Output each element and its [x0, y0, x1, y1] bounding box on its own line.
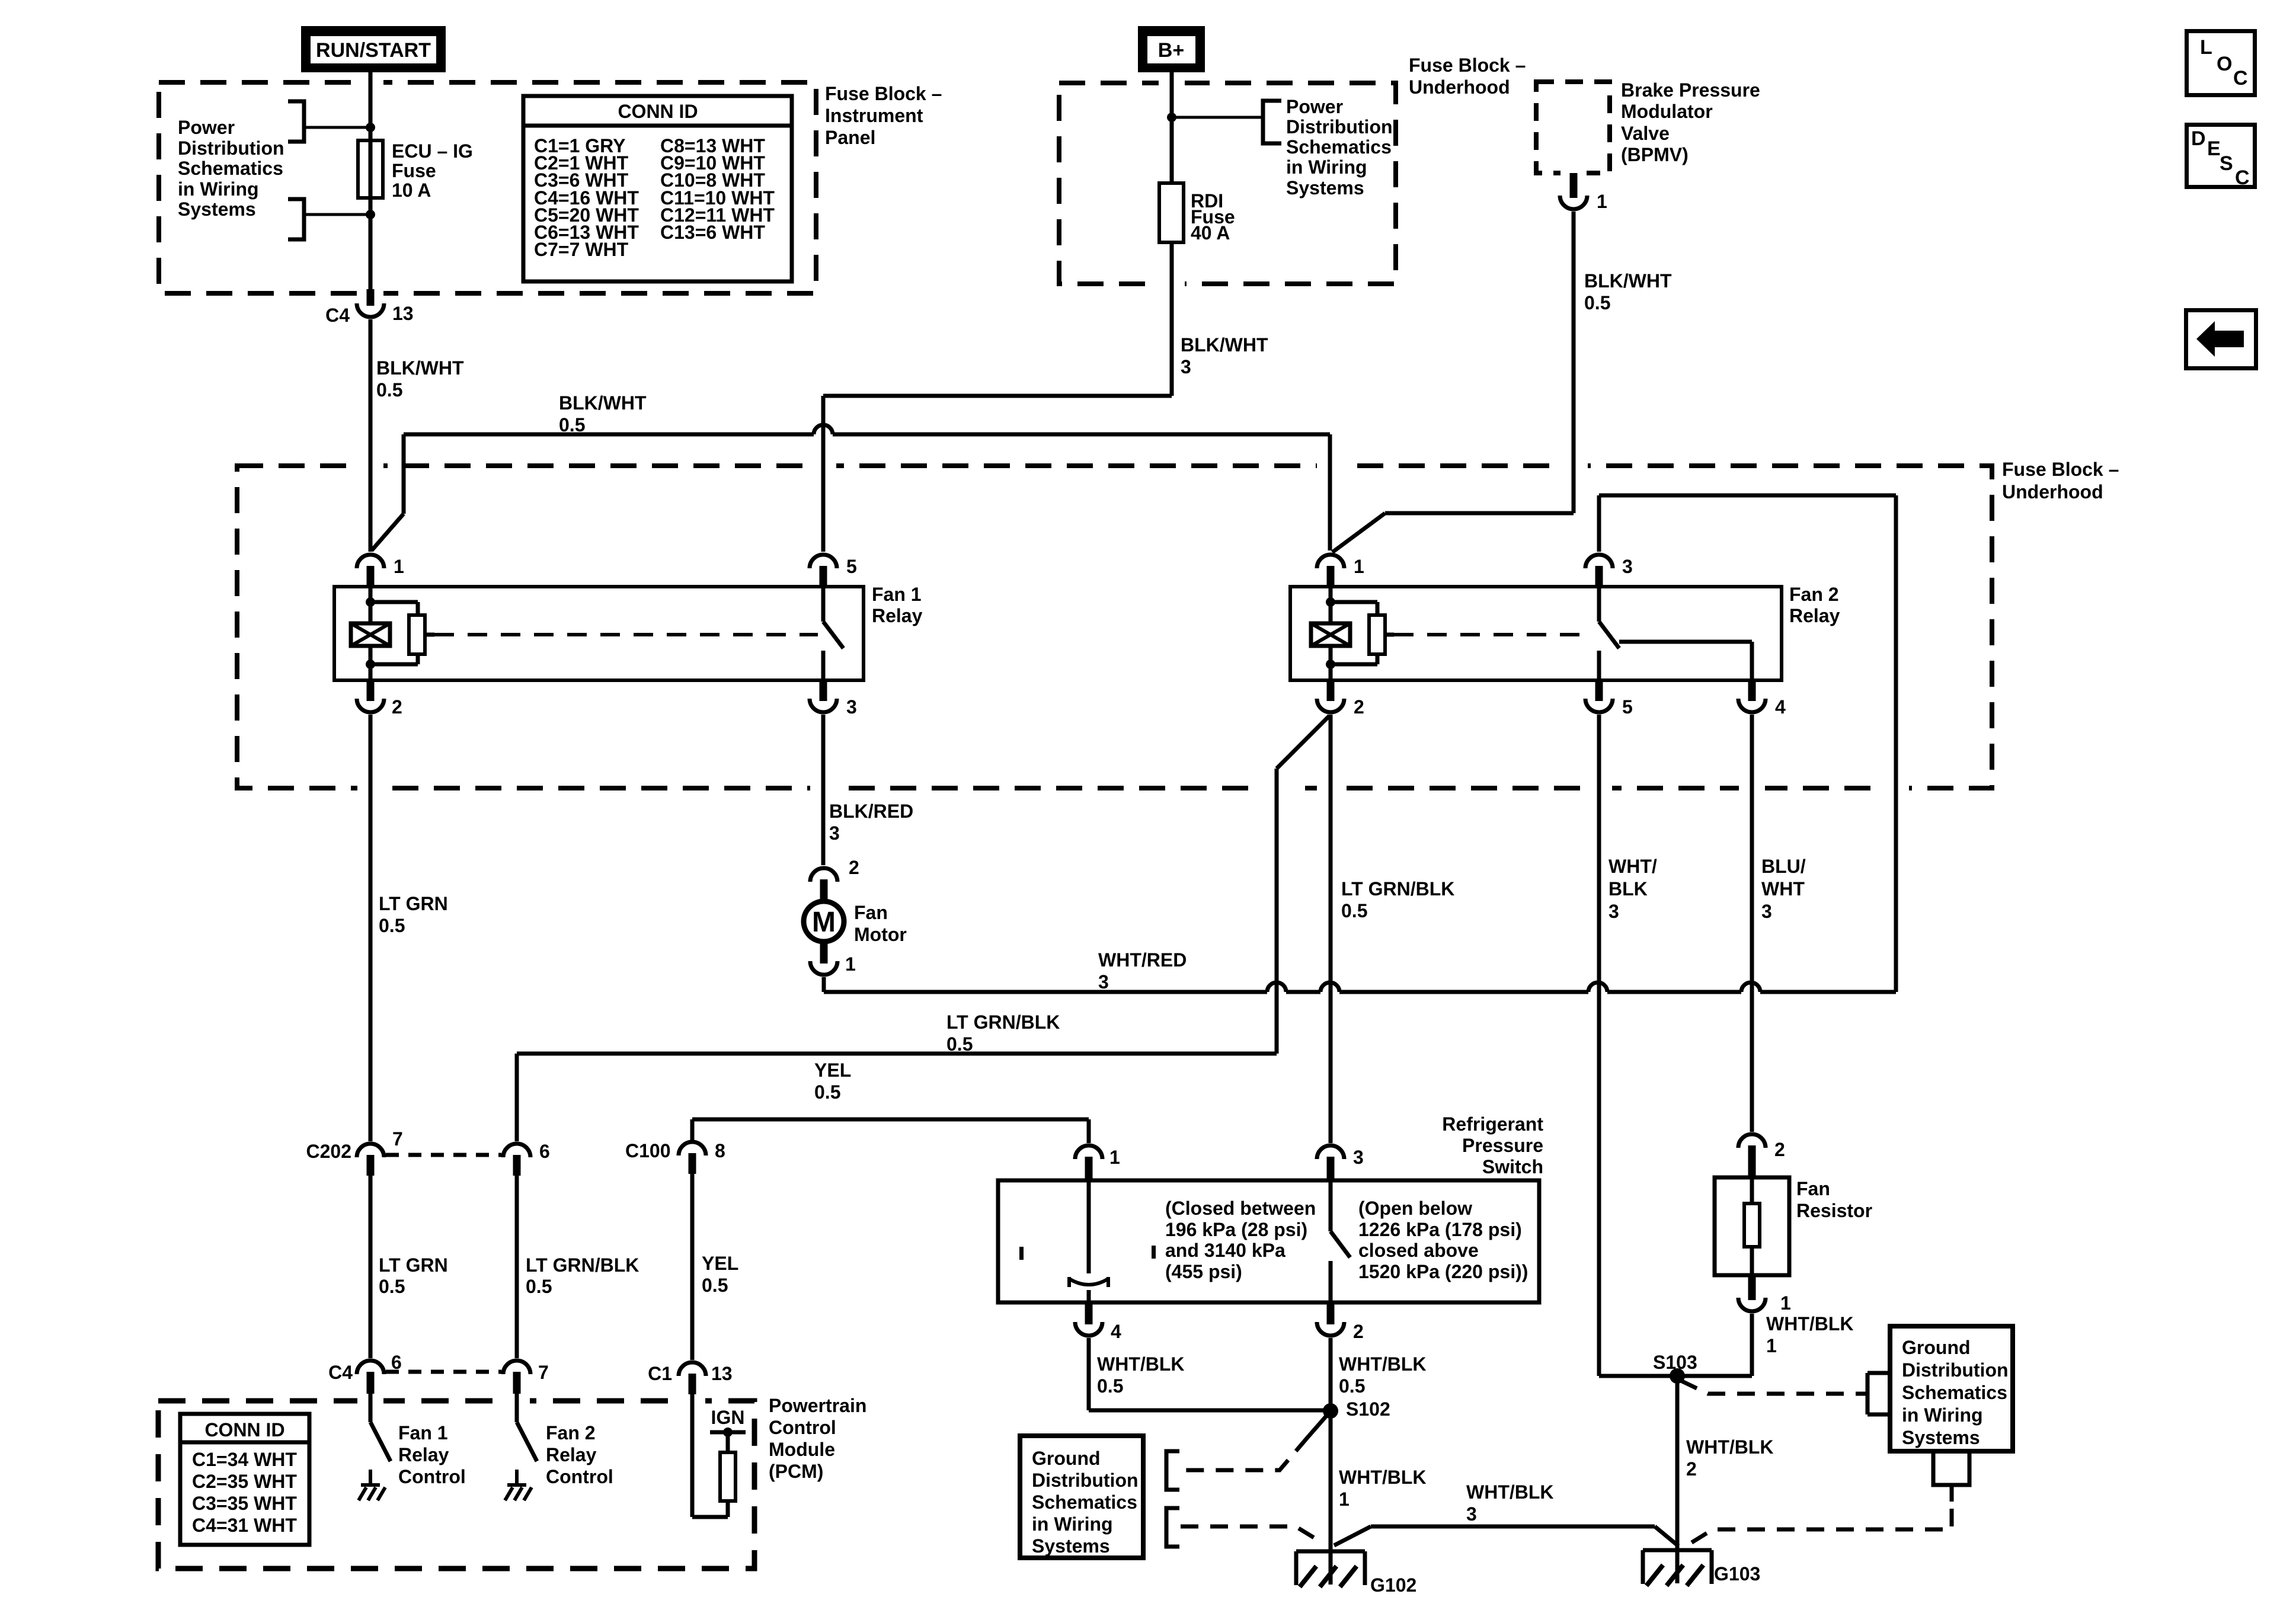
pressure switch left contact [1087, 1180, 1091, 1273]
svg-text:3: 3 [1353, 1147, 1364, 1168]
svg-text:RUN/START: RUN/START [316, 39, 431, 62]
svg-text:Distribution: Distribution [178, 137, 284, 159]
wire BLK/RED fan1 pin3 down [821, 715, 826, 865]
wire diagonal to fan1 pin1 [372, 514, 404, 550]
svg-text:Systems: Systems [178, 199, 256, 220]
svg-text:WHT/BLK: WHT/BLK [1339, 1467, 1427, 1488]
svg-text:G103: G103 [1714, 1563, 1760, 1585]
svg-text:(PCM): (PCM) [769, 1461, 823, 1482]
svg-text:7: 7 [538, 1362, 549, 1383]
svg-text:7: 7 [392, 1128, 403, 1150]
svg-text:0.5: 0.5 [814, 1081, 840, 1103]
svg-text:0.5: 0.5 [559, 414, 585, 436]
ground fan1 relay control [369, 1470, 372, 1485]
svg-text:Control: Control [398, 1466, 466, 1487]
svg-text:BLK/WHT: BLK/WHT [1181, 334, 1268, 356]
fan2 relay pin 1 [1317, 555, 1344, 568]
svg-text:B+: B+ [1158, 39, 1184, 62]
wire pin4 down [1087, 1338, 1091, 1410]
LOC legend box [2187, 31, 2255, 95]
svg-text:WHT/RED: WHT/RED [1098, 949, 1187, 971]
svg-text:Fuse Block –: Fuse Block – [2002, 459, 2119, 480]
wire LT GRN fan1 pin2 down [369, 715, 373, 1141]
node junction dot B+ [1167, 113, 1176, 122]
wire to bracket lower [304, 213, 370, 216]
svg-text:Fan 1: Fan 1 [398, 1422, 448, 1443]
svg-text:G102: G102 [1370, 1574, 1416, 1596]
svg-text:WHT/BLK: WHT/BLK [1766, 1313, 1854, 1334]
svg-text:Fuse Block –: Fuse Block – [1409, 55, 1526, 76]
fan1 relay pin 2 [367, 680, 375, 701]
svg-text:Refrigerant: Refrigerant [1442, 1113, 1543, 1135]
svg-text:ECU – IG: ECU – IG [392, 140, 473, 162]
motor M1 fan motor [804, 901, 844, 942]
svg-text:CONN ID: CONN ID [618, 101, 698, 122]
svg-text:Distribution: Distribution [1032, 1470, 1139, 1491]
svg-text:C3=35 WHT: C3=35 WHT [192, 1493, 297, 1514]
node junction dot upper [366, 123, 375, 132]
svg-text:Systems: Systems [1032, 1535, 1110, 1557]
svg-text:1: 1 [845, 953, 856, 975]
ground G102 [1296, 1550, 1365, 1554]
svg-text:WHT/: WHT/ [1609, 856, 1657, 877]
svg-text:Powertrain: Powertrain [769, 1395, 866, 1416]
svg-text:Resistor: Resistor [1796, 1200, 1872, 1221]
fuse block instrument panel dashed box [159, 82, 816, 293]
svg-text:LT GRN/BLK: LT GRN/BLK [526, 1254, 639, 1276]
wire BLK/WHT 0.5 down [369, 319, 373, 552]
svg-text:YEL: YEL [702, 1253, 738, 1274]
connector half bracket gnd dist lower [1166, 1508, 1179, 1547]
wire LT GRN/BLK down to C202-6 [515, 1054, 519, 1141]
fan2 relay control switch blade [517, 1422, 537, 1461]
svg-text:1: 1 [394, 556, 404, 577]
svg-text:C1=34 WHT: C1=34 WHT [192, 1449, 297, 1470]
PCM dashed box [158, 1401, 754, 1569]
svg-text:1520 kPa (220 psi)): 1520 kPa (220 psi)) [1358, 1261, 1528, 1282]
svg-text:Schematics: Schematics [178, 158, 283, 179]
pressure switch pin 1 [1075, 1145, 1102, 1159]
svg-text:2: 2 [1774, 1139, 1785, 1160]
fan2 relay switch contact top [1597, 587, 1601, 622]
wire to bracket B+ [1172, 116, 1263, 119]
pressure switch pin 3 [1317, 1145, 1344, 1159]
svg-text:in Wiring: in Wiring [1902, 1404, 1983, 1426]
wire BLK/WHT 3 down [1170, 242, 1174, 396]
svg-text:C: C [2235, 167, 2250, 189]
svg-text:C202: C202 [306, 1141, 352, 1162]
wire S103 horizontal [1599, 1374, 1752, 1378]
svg-text:Power: Power [178, 117, 235, 138]
svg-text:LT GRN/BLK: LT GRN/BLK [946, 1012, 1060, 1033]
wire WHT/BLK 2 down to G103 [1675, 1376, 1680, 1583]
svg-text:S: S [2220, 152, 2233, 175]
fan motor pin 1 [820, 941, 828, 964]
svg-text:4: 4 [1111, 1321, 1121, 1342]
svg-text:Schematics: Schematics [1286, 136, 1392, 158]
svg-text:LT GRN/BLK: LT GRN/BLK [1341, 878, 1454, 900]
svg-text:Ground: Ground [1902, 1337, 1971, 1358]
svg-text:Relay: Relay [1789, 605, 1840, 626]
svg-text:Systems: Systems [1902, 1427, 1980, 1448]
svg-text:IGN: IGN [711, 1407, 745, 1428]
wire pin2 down to G102 [1329, 1338, 1333, 1585]
svg-text:C1: C1 [648, 1363, 672, 1384]
connector C202 pin 6 [503, 1144, 530, 1157]
svg-text:10 A: 10 A [392, 180, 431, 201]
wire WHT/RED top horizontal [1599, 494, 1896, 498]
wire WHT/BLK 3 between grounds [1334, 1526, 1371, 1545]
svg-text:0.5: 0.5 [376, 379, 402, 401]
svg-text:1: 1 [1766, 1335, 1777, 1356]
connector C4 pin 13 [367, 289, 375, 306]
fan motor pin 2 [810, 868, 837, 882]
conn id table PCM [180, 1414, 309, 1545]
fan1 relay coil wire bottom [369, 646, 373, 680]
fan resistor inner wire [1750, 1177, 1754, 1204]
wire LT GRN/BLK horizontal [517, 1052, 1277, 1056]
fan2 relay switch blade [1599, 622, 1619, 648]
ground G103 [1643, 1548, 1712, 1553]
wire LT GRN/BLK to C4 [515, 1176, 519, 1358]
svg-text:2: 2 [1353, 1321, 1364, 1342]
fan1 relay pin 5 [810, 555, 837, 568]
fan1 relay coil wire top [369, 587, 373, 623]
svg-text:Panel: Panel [825, 127, 875, 148]
svg-text:3: 3 [829, 822, 840, 844]
svg-text:1: 1 [1354, 556, 1364, 577]
DESC legend box [2187, 125, 2255, 187]
svg-text:5: 5 [1622, 696, 1633, 718]
wire BPMV horizontal [1385, 511, 1574, 516]
svg-text:Distribution: Distribution [1902, 1359, 2009, 1381]
svg-text:2: 2 [849, 857, 859, 878]
svg-text:Motor: Motor [854, 924, 907, 945]
wire BLK/WHT 0.5 horizontal [404, 433, 814, 437]
svg-text:3: 3 [1609, 901, 1619, 922]
svg-text:BLK: BLK [1609, 878, 1648, 900]
svg-text:BLK/WHT: BLK/WHT [376, 357, 464, 379]
svg-text:5: 5 [846, 556, 857, 577]
fan2 relay pin 4 [1748, 680, 1756, 701]
svg-text:E: E [2207, 137, 2221, 160]
svg-text:D: D [2191, 127, 2206, 150]
wire LT GRN/BLK vertical [1275, 769, 1279, 1054]
wire BPMV diagonal to fan2 pin1 [1332, 513, 1385, 552]
svg-text:3: 3 [1761, 901, 1772, 922]
wire WHT/BLK 3 fan2 pin5 down [1597, 715, 1601, 1376]
fan2 relay resistor loop [1331, 600, 1377, 604]
svg-text:in Wiring: in Wiring [178, 178, 259, 200]
svg-text:(Closed between: (Closed between [1165, 1198, 1316, 1219]
wire LT GRN to C4 [369, 1176, 373, 1358]
wire dashed bracket to G103 [1688, 1509, 1952, 1545]
wire YEL up and over [690, 1119, 695, 1140]
wire B+ down [1170, 72, 1174, 183]
fan2 relay coil wire top [1329, 587, 1333, 623]
svg-text:WHT/BLK: WHT/BLK [1686, 1436, 1774, 1458]
fan2 relay pin 5 [1595, 680, 1603, 701]
dash break patches [357, 76, 383, 89]
svg-text:BLK/WHT: BLK/WHT [559, 392, 647, 414]
fan2 relay switch to pin4 [1619, 640, 1752, 644]
fuse RDI [1159, 183, 1184, 242]
svg-text:Fuse Block –: Fuse Block – [825, 83, 942, 104]
svg-text:LT GRN: LT GRN [379, 893, 448, 914]
svg-text:Module: Module [769, 1439, 835, 1460]
svg-text:Modulator: Modulator [1621, 101, 1713, 122]
svg-text:WHT/BLK: WHT/BLK [1339, 1353, 1427, 1375]
fuse block underhood top dashed box [1059, 83, 1396, 284]
svg-text:3: 3 [1466, 1503, 1477, 1525]
svg-text:Switch: Switch [1482, 1156, 1543, 1177]
svg-text:8: 8 [715, 1140, 725, 1161]
fan resistor pin 1 [1748, 1275, 1756, 1300]
svg-text:0.5: 0.5 [1339, 1375, 1365, 1397]
wire BLK/WHT 3 left [823, 394, 1172, 398]
BPMV dashed box [1536, 82, 1610, 173]
wire fan resistor to S103 [1750, 1314, 1754, 1376]
svg-text:Schematics: Schematics [1032, 1491, 1137, 1513]
fan1 relay control switch blade [370, 1422, 391, 1461]
svg-text:Power: Power [1286, 96, 1343, 117]
node S103 splice [1670, 1368, 1685, 1384]
connector half bracket right lower [1933, 1451, 1969, 1502]
svg-text:0.5: 0.5 [946, 1033, 973, 1055]
connector half bracket right upper [1868, 1373, 1888, 1414]
svg-text:Instrument: Instrument [825, 105, 923, 126]
connector C4 pin 6 [357, 1361, 384, 1374]
fan1 relay coil-switch link [425, 633, 434, 637]
wire WHT/RED to fan2 pin3 [1597, 495, 1601, 552]
svg-text:S103: S103 [1653, 1352, 1697, 1373]
svg-text:0.5: 0.5 [379, 915, 405, 936]
svg-text:Brake Pressure: Brake Pressure [1621, 79, 1760, 101]
resistor IGN pullup [720, 1452, 736, 1501]
node fan1 coil dot bottom [366, 660, 375, 669]
fan1 relay switch contact top [821, 587, 826, 622]
wire C202 dashed link [386, 1153, 501, 1157]
fan resistor pin 2 [1738, 1134, 1766, 1148]
connector half bracket upper [288, 101, 304, 142]
svg-text:0.5: 0.5 [1584, 292, 1610, 313]
svg-text:O: O [2217, 53, 2232, 75]
fan2 relay switch contact bottom [1597, 651, 1601, 680]
svg-text:Fan 2: Fan 2 [1789, 584, 1839, 605]
node IGN dot [723, 1427, 733, 1437]
relay K2 Fan 2 Relay box [1290, 587, 1782, 680]
wire YEL down [690, 1174, 695, 1360]
node junction dot lower [366, 210, 375, 219]
svg-text:3: 3 [1622, 556, 1633, 577]
wire fan2 pin2 diagonal [1277, 716, 1329, 769]
svg-text:YEL: YEL [814, 1060, 851, 1081]
wire BLU/WHT fan2 pin4 down [1750, 715, 1754, 1132]
svg-text:Fan 2: Fan 2 [546, 1422, 596, 1443]
connector half bracket gnd dist upper [1166, 1451, 1179, 1490]
svg-text:WHT/BLK: WHT/BLK [1097, 1353, 1185, 1375]
svg-text:BLK/RED: BLK/RED [829, 801, 913, 822]
svg-text:Schematics: Schematics [1902, 1382, 2007, 1403]
svg-text:Relay: Relay [872, 605, 923, 626]
svg-text:Relay: Relay [546, 1444, 597, 1465]
ground fan2 relay control [515, 1470, 519, 1485]
svg-text:2: 2 [392, 696, 402, 718]
svg-text:Relay: Relay [398, 1444, 449, 1465]
svg-text:0.5: 0.5 [379, 1276, 405, 1297]
svg-text:Fan: Fan [1796, 1178, 1830, 1199]
fan2 relay pin 3 [1585, 555, 1613, 568]
svg-text:40 A: 40 A [1191, 222, 1230, 244]
svg-text:L: L [2200, 36, 2212, 59]
resistor fan1 relay [409, 615, 425, 654]
wire C4 dashed link [386, 1370, 501, 1374]
fan1 relay switch blade [823, 622, 843, 648]
svg-text:0.5: 0.5 [1097, 1375, 1123, 1397]
svg-text:C100: C100 [625, 1140, 671, 1161]
svg-text:C7=7 WHT: C7=7 WHT [534, 239, 629, 260]
svg-text:(Open below: (Open below [1358, 1198, 1472, 1219]
svg-text:Fan 1: Fan 1 [872, 584, 922, 605]
conn id table instrument panel [523, 96, 792, 281]
connector C202 pin 7 [357, 1144, 384, 1157]
svg-text:196 kPa (28 psi): 196 kPa (28 psi) [1165, 1219, 1307, 1240]
connector C1 pin 13 [679, 1362, 706, 1376]
svg-text:1: 1 [1109, 1147, 1120, 1168]
fan2 relay pin 2 [1327, 680, 1335, 701]
pressure switch S1 box [998, 1180, 1539, 1302]
svg-text:1: 1 [1597, 191, 1607, 212]
svg-text:1226 kPa (178 psi): 1226 kPa (178 psi) [1358, 1219, 1522, 1240]
fan1 relay resistor loop [370, 600, 418, 604]
wire BLK/WHT 0.5 corner [402, 434, 406, 514]
svg-text:Underhood: Underhood [2002, 481, 2103, 502]
fan1 relay control wire [369, 1394, 373, 1422]
fuse ECU-IG F1 [358, 140, 383, 198]
svg-text:in Wiring: in Wiring [1286, 156, 1367, 178]
wire to bracket upper [304, 126, 370, 129]
connector half bracket B+ [1263, 101, 1281, 143]
svg-text:0.5: 0.5 [526, 1276, 552, 1297]
connector C100 pin 8 [679, 1142, 706, 1156]
fan1 relay pin 1 [357, 555, 384, 568]
resistor fan2 relay [1369, 615, 1385, 654]
svg-text:3: 3 [1181, 356, 1191, 377]
node S102 splice [1323, 1403, 1338, 1419]
svg-text:(455 psi): (455 psi) [1165, 1261, 1242, 1282]
back arrow box [2186, 311, 2256, 369]
svg-text:Control: Control [546, 1466, 613, 1487]
svg-text:2: 2 [1686, 1458, 1697, 1480]
wire BLK/WHT 0.5 down to fan2 pin1 [1328, 434, 1332, 550]
relay coil L1 [351, 623, 390, 646]
node fan1 coil dot top [366, 597, 375, 607]
fan2 relay control wire [515, 1394, 519, 1422]
wire S102 dashed to bracket [1307, 1414, 1328, 1438]
ground distribution box right [1890, 1326, 2013, 1451]
svg-text:LT GRN: LT GRN [379, 1254, 448, 1276]
wire pin4 to S102 [1089, 1409, 1331, 1413]
node fan2 coil dot bottom [1326, 660, 1335, 669]
fan2 relay coil wire bottom [1329, 646, 1333, 680]
wire BLK/WHT 3 to fan1 relay pin5 [821, 396, 826, 552]
wire fan motor to WHT/RED [822, 977, 826, 992]
wire S103 dashed to bracket [1681, 1381, 1868, 1394]
pressure switch NC mark left [1019, 1247, 1024, 1260]
svg-text:6: 6 [539, 1141, 550, 1162]
svg-text:C13=6 WHT: C13=6 WHT [660, 222, 765, 243]
svg-text:0.5: 0.5 [702, 1275, 728, 1296]
svg-text:in Wiring: in Wiring [1032, 1513, 1113, 1535]
wire LT GRN/BLK fan2 pin2 down [1329, 715, 1333, 1143]
svg-text:and 3140 kPa: and 3140 kPa [1165, 1240, 1285, 1261]
connector BPMV pin 1 [1570, 173, 1578, 198]
pressure switch pin 2 [1327, 1302, 1335, 1324]
svg-text:Underhood: Underhood [1409, 76, 1510, 98]
svg-text:13: 13 [711, 1363, 733, 1384]
svg-text:0.5: 0.5 [1341, 900, 1367, 921]
connector half bracket lower [288, 199, 304, 239]
svg-text:C4: C4 [325, 305, 350, 326]
svg-text:13: 13 [392, 303, 414, 324]
svg-text:M: M [812, 907, 836, 938]
svg-text:WHT: WHT [1761, 878, 1805, 900]
svg-text:Systems: Systems [1286, 177, 1364, 199]
svg-text:(BPMV): (BPMV) [1621, 144, 1689, 165]
wire C1-13 to IGN resistor [690, 1394, 695, 1517]
wire dashed to G102 [1181, 1526, 1323, 1543]
svg-text:closed above: closed above [1358, 1240, 1479, 1261]
fan1 relay pin 3 [820, 680, 827, 701]
connector C4 pin 7 [503, 1361, 530, 1374]
svg-text:Fuse: Fuse [392, 160, 436, 181]
svg-text:4: 4 [1775, 696, 1786, 718]
svg-text:C4: C4 [328, 1362, 353, 1383]
pressure switch pin 4 [1085, 1302, 1093, 1324]
svg-text:Fan: Fan [854, 902, 888, 923]
keyword box RUN/START [305, 30, 442, 69]
svg-text:3: 3 [1098, 971, 1109, 993]
IGN supply bar [710, 1430, 746, 1435]
pressure switch right contact [1329, 1180, 1333, 1231]
relay K1 Fan 1 Relay box [334, 587, 864, 680]
svg-text:3: 3 [846, 696, 857, 718]
fan1 relay switch contact bottom [821, 651, 826, 680]
resistor R1 fan resistor box [1715, 1177, 1789, 1275]
fuse block underhood main dashed box [237, 466, 1992, 788]
wire WHT/RED vertical up [1894, 495, 1898, 992]
svg-text:1: 1 [1339, 1489, 1350, 1510]
svg-text:Control: Control [769, 1417, 836, 1438]
svg-text:S102: S102 [1346, 1398, 1390, 1420]
svg-text:Valve: Valve [1621, 123, 1670, 144]
wire WHT/RED 3 [824, 990, 1267, 994]
wire RUN/START down [369, 72, 373, 289]
svg-text:Pressure: Pressure [1462, 1135, 1543, 1156]
node fan2 coil dot top [1326, 597, 1335, 607]
svg-text:BLK/WHT: BLK/WHT [1584, 270, 1672, 292]
svg-text:1: 1 [1780, 1292, 1791, 1314]
svg-text:CONN ID: CONN ID [204, 1419, 284, 1441]
wire IGN resistor top [726, 1432, 730, 1452]
keyword box B+ [1142, 30, 1201, 69]
svg-text:Distribution: Distribution [1286, 116, 1393, 137]
ground distribution box left [1020, 1436, 1143, 1558]
fan2 relay coil-switch link [1385, 633, 1394, 637]
pressure switch NC mark right [1152, 1246, 1156, 1259]
svg-text:C4=31 WHT: C4=31 WHT [192, 1515, 297, 1536]
svg-text:2: 2 [1354, 696, 1364, 718]
